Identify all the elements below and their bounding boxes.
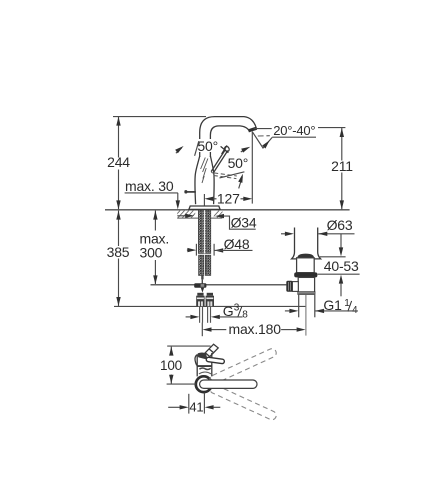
top view: base ring: [196, 376, 212, 392]
svg-text:40-53: 40-53: [324, 258, 359, 274]
label G1 1/4: [285, 297, 358, 316]
counter hatching right: [211, 208, 230, 219]
dimension max. 300: [140, 211, 170, 285]
svg-text:4: 4: [352, 305, 358, 316]
nut tail right: [208, 306, 211, 323]
dimension 211: [318, 128, 353, 210]
385 bottom reference line: [114, 305, 306, 307]
label 20-40 deg: [254, 128, 272, 130]
side port: [292, 282, 298, 292]
dashed raised tip position: [258, 135, 270, 137]
body hatch marks: [201, 158, 208, 184]
svg-text:211: 211: [331, 158, 353, 174]
threaded shank with braid texture: [198, 210, 210, 253]
connector nut right: [206, 293, 214, 306]
faucet body right contour: [210, 156, 214, 204]
drain neck left: [292, 228, 297, 259]
base plate: [189, 206, 220, 209]
dimension 127: [204, 132, 252, 207]
arrow at spout tip: [241, 150, 244, 152]
top view: spout tip parallelogram: [205, 344, 218, 356]
shank center gap: [204, 210, 206, 253]
top view: dashed handle position up: [209, 347, 278, 385]
plug dome: [297, 254, 314, 259]
faucet body left contour: [195, 156, 200, 204]
pull rod knob: [185, 191, 196, 193]
svg-text:41: 41: [189, 399, 203, 414]
lever pivot: [211, 172, 213, 173]
counter bottom line: [177, 217, 222, 219]
dimension max.180: [202, 321, 305, 337]
coupling lower tip: [201, 288, 204, 293]
label G 3/8: [186, 302, 249, 320]
cross arrow at lever tip: [221, 145, 229, 154]
supply hose left: [199, 255, 204, 275]
top view: body column: [195, 353, 212, 377]
top view: spout tip reference line: [167, 345, 210, 347]
dimension Ø48: [187, 236, 253, 256]
hose depth reference line (pop-up rod): [151, 284, 287, 286]
svg-text:244: 244: [107, 154, 130, 170]
left hose end fitting: [201, 275, 203, 279]
seal ring band: [294, 272, 317, 277]
drain neck right: [314, 228, 321, 259]
dashed lever alternate position: [214, 173, 237, 179]
svg-text:300: 300: [140, 245, 163, 261]
top view: lever seen from above: [206, 357, 225, 364]
svg-text:3: 3: [234, 302, 240, 313]
label Ø63: [281, 217, 355, 236]
svg-text:20°-40°: 20°-40°: [273, 123, 315, 138]
supply hose right: [205, 255, 210, 275]
drain body lower band: [297, 291, 315, 294]
svg-text:50°: 50°: [197, 138, 218, 154]
top view: handle capsule: [200, 380, 257, 388]
50 deg #1 tick through text: [195, 141, 199, 156]
plug cylinder: [297, 258, 315, 273]
rod coupling: [194, 283, 206, 288]
dimension 244: [107, 117, 130, 210]
svg-text:Ø34: Ø34: [231, 214, 257, 230]
spout top extension line: [113, 116, 206, 118]
svg-text:Ø48: Ø48: [224, 236, 250, 252]
tailpiece: [299, 295, 315, 318]
svg-text:50°: 50°: [228, 155, 249, 171]
connector nut left: [196, 293, 204, 306]
spout tip face (aerator): [248, 128, 256, 131]
angle leader line 50 deg #2: [220, 172, 245, 178]
lever handle: [211, 146, 230, 173]
svg-text:100: 100: [160, 358, 182, 373]
top view: dashed handle position down: [209, 383, 278, 421]
svg-text:385: 385: [107, 244, 130, 260]
counter surface line: [105, 209, 350, 211]
svg-text:127: 127: [217, 191, 240, 207]
svg-text:max.180: max.180: [229, 321, 282, 337]
20-40 underline: [272, 136, 316, 138]
nut tail left: [200, 306, 203, 323]
dimension 41: [168, 393, 220, 415]
drain centerline: [305, 295, 307, 336]
50 deg #1 left arrow: [176, 148, 182, 153]
dimension 385: [107, 211, 130, 306]
dimension 40-53: [318, 234, 360, 296]
dimension Ø34: [177, 214, 257, 231]
20-40 angle vee: [252, 132, 272, 148]
side knob: [286, 281, 292, 292]
top view: lever base: [197, 353, 207, 360]
svg-text:max. 30: max. 30: [125, 178, 174, 194]
label 50 deg #1: [197, 139, 222, 152]
dimension 100: [160, 347, 196, 385]
spout inner contour: [210, 126, 248, 157]
label max. 30: [125, 178, 180, 209]
top view: cartridge band: [197, 365, 212, 367]
counter hatching left: [172, 208, 204, 219]
drain body: [298, 277, 314, 292]
spout outer contour: [200, 117, 257, 157]
svg-text:8: 8: [242, 309, 248, 320]
top view: cartridge wave: [199, 368, 210, 370]
svg-text:Ø63: Ø63: [327, 217, 353, 233]
